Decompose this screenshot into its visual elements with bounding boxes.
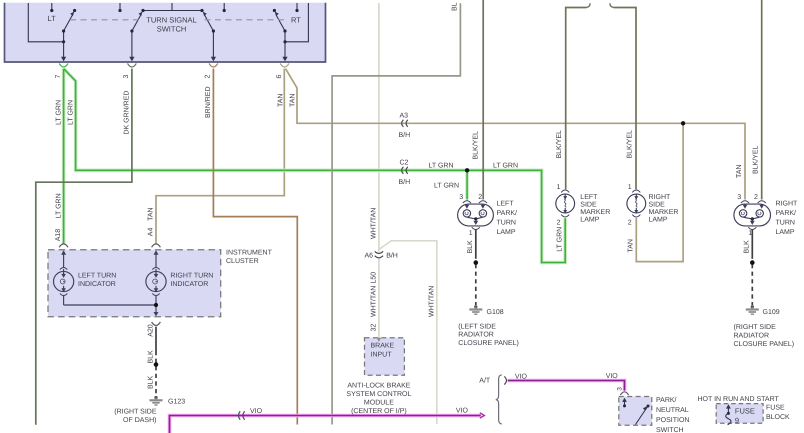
switch blade (pin 2) xyxy=(204,14,213,31)
svg-text:INPUT: INPUT xyxy=(371,351,393,358)
svg-text:SIDE: SIDE xyxy=(649,201,666,208)
svg-text:POSITION: POSITION xyxy=(656,417,689,424)
svg-text:2: 2 xyxy=(205,75,212,79)
lamp right side marker xyxy=(627,190,646,217)
svg-text:TAN: TAN xyxy=(289,94,296,107)
wire BLK dashed from splice to ground G109 xyxy=(751,264,753,305)
svg-text:RADIATOR: RADIATOR xyxy=(458,332,494,339)
wire BLK dashed from splice to ground G108 xyxy=(475,264,477,305)
ground G108 xyxy=(469,305,482,314)
svg-text:LT GRN: LT GRN xyxy=(434,183,459,190)
svg-text:TURN: TURN xyxy=(497,219,516,226)
svg-text:3: 3 xyxy=(737,194,741,201)
svg-text:WHT/TAN: WHT/TAN xyxy=(427,286,435,317)
svg-text:1: 1 xyxy=(748,230,752,237)
svg-text:LT GRN: LT GRN xyxy=(493,163,518,170)
svg-text:PARK/: PARK/ xyxy=(497,209,518,217)
svg-text:RIGHT: RIGHT xyxy=(776,200,799,207)
svg-text:LEFT: LEFT xyxy=(497,200,515,207)
svg-text:LT GRN: LT GRN xyxy=(429,163,454,170)
inline connector A6 B/H on WHT/TAN wire xyxy=(375,251,383,257)
park/neutral switch internals xyxy=(625,401,648,425)
svg-text:WHT/TAN: WHT/TAN xyxy=(369,208,377,239)
svg-text:L50: L50 xyxy=(370,272,377,284)
pin 3 connector arc xyxy=(128,63,137,67)
node stub center tap xyxy=(171,3,173,11)
svg-text:LEFT: LEFT xyxy=(580,194,598,201)
svg-text:G109: G109 xyxy=(763,309,780,316)
svg-text:LAMP: LAMP xyxy=(497,229,516,236)
svg-text:BLK: BLK xyxy=(147,350,154,364)
svg-text:LT GRN: LT GRN xyxy=(55,100,62,125)
wire BLK from right park/turn lamp pin 1 to splice xyxy=(751,230,753,259)
pin 2 connector arc xyxy=(209,63,218,67)
wire TAN branch from junction down to right side marker pin 2 xyxy=(636,123,683,261)
ground G123 xyxy=(150,396,163,405)
wire VIO lower from bottom edge up and across to A/T brace xyxy=(170,416,481,433)
svg-text:LEFT TURN: LEFT TURN xyxy=(78,272,116,279)
wire LT GRN halo xyxy=(64,69,566,263)
svg-text:BLK: BLK xyxy=(467,240,474,254)
wire VIO upper from brace connector to park/neutral position switch xyxy=(508,381,625,391)
switch gang dashed line xyxy=(70,19,288,21)
svg-text:BLK/YEL: BLK/YEL xyxy=(472,131,480,160)
svg-text:(CENTER OF I/P): (CENTER OF I/P) xyxy=(351,407,407,415)
svg-text:RIGHT TURN: RIGHT TURN xyxy=(170,272,213,279)
wire switch 1 drop to pin 7 xyxy=(63,31,65,57)
svg-text:C2: C2 xyxy=(400,160,409,167)
wire WHT/TAN from top to ABS module brake input xyxy=(378,3,380,339)
svg-text:TAN: TAN xyxy=(627,239,634,252)
wire switch 4 drop to pin 6 xyxy=(284,31,286,57)
svg-text:A18: A18 xyxy=(55,229,62,242)
arrowheads at switch box bottom pins xyxy=(61,57,288,62)
svg-text:ANTI-LOCK BRAKE: ANTI-LOCK BRAKE xyxy=(347,383,410,390)
wire BLK from left park/turn lamp pin 1 to splice xyxy=(475,230,477,259)
svg-text:(RIGHT SIDE: (RIGHT SIDE xyxy=(734,323,777,331)
svg-text:RADIATOR: RADIATOR xyxy=(734,332,770,339)
junction dot LT GRN at C2 split xyxy=(465,168,469,172)
svg-text:INDICATOR: INDICATOR xyxy=(170,281,208,288)
svg-text:1: 1 xyxy=(557,184,561,191)
inline connector on VIO lower wire xyxy=(238,411,244,419)
wire top bar between switch 2 and 3 xyxy=(143,10,202,12)
svg-text:LT GRN: LT GRN xyxy=(55,193,62,218)
brace A/T split xyxy=(496,375,502,424)
svg-text:A3: A3 xyxy=(400,113,409,120)
svg-text:7: 7 xyxy=(55,75,62,79)
svg-text:A20: A20 xyxy=(147,324,154,337)
svg-text:3: 3 xyxy=(616,387,623,391)
node stub LT xyxy=(51,3,53,10)
junction dot TAN at side marker branch xyxy=(681,121,685,125)
splice dot BLK below left park/turn lamp xyxy=(474,260,479,265)
wire link between indicators inside cluster xyxy=(64,304,156,306)
wire VIO halo xyxy=(170,381,625,433)
arrow WHT/TAN into brake input xyxy=(377,338,382,342)
wire left feed inside switch box xyxy=(28,3,63,42)
svg-text:6: 6 xyxy=(276,75,283,79)
svg-text:SWITCH: SWITCH xyxy=(157,25,187,34)
wire LT GRN drop from junction to left park/turn lamp pin 3 xyxy=(466,170,468,199)
svg-text:FUSE: FUSE xyxy=(766,405,785,412)
svg-text:(RIGHT SIDE: (RIGHT SIDE xyxy=(114,408,157,416)
wire BLK/YEL to right side marker pin 1 (with top inline connector half) xyxy=(610,3,636,189)
svg-text:NEUTRAL: NEUTRAL xyxy=(656,407,689,414)
wire LT GRN from pin 7 diagonal down, across page, down to left side marker pin 2 xyxy=(64,69,565,263)
svg-text:WHT/TAN: WHT/TAN xyxy=(369,286,377,317)
svg-text:MARKER: MARKER xyxy=(649,209,679,216)
svg-text:HOT IN RUN AND START: HOT IN RUN AND START xyxy=(698,396,780,403)
svg-text:BLOCK: BLOCK xyxy=(766,414,790,421)
svg-text:VIO: VIO xyxy=(456,407,469,414)
svg-text:SWITCH: SWITCH xyxy=(656,427,684,433)
svg-text:VIO: VIO xyxy=(250,408,263,415)
svg-text:RIGHT: RIGHT xyxy=(649,194,672,201)
switch blade RT (pin 6) xyxy=(276,14,285,31)
svg-text:INSTRUMENT: INSTRUMENT xyxy=(226,249,273,256)
pin 3 connector arc park/neutral xyxy=(620,392,628,395)
svg-text:OF DASH): OF DASH) xyxy=(123,416,156,424)
svg-text:FUSE: FUSE xyxy=(735,407,755,416)
fuse block box xyxy=(716,404,763,424)
pin 7 connector arc xyxy=(59,63,68,67)
switch blade LT (pin 7) xyxy=(64,14,73,31)
wire BRN/RED from pin 2 down, right, down crossing VIO xyxy=(213,69,297,425)
svg-text:32: 32 xyxy=(370,324,377,332)
lamp right park/turn xyxy=(734,201,771,230)
lamp right turn indicator xyxy=(146,253,166,314)
svg-text:PARK/: PARK/ xyxy=(776,209,797,217)
svg-text:SIDE: SIDE xyxy=(580,201,597,208)
svg-text:INDICATOR: INDICATOR xyxy=(78,281,116,288)
svg-text:RT: RT xyxy=(291,15,301,24)
wire BLK from instrument cluster pin A20 to splice xyxy=(155,327,157,351)
svg-text:BL: BL xyxy=(452,2,459,11)
junction dots inside switch box xyxy=(50,9,298,44)
svg-text:BLK/YEL: BLK/YEL xyxy=(752,145,760,174)
turn signal switch internals xyxy=(28,3,308,57)
wire DK GRN/RED from pin 3 down, left, down to bottom left xyxy=(36,69,132,425)
wire WHT/TAN branch jog to lower right crossing VIO xyxy=(379,241,437,424)
wire TAN from pin 6 diagonal, long horizontal to right park/turn lamp pin 3 xyxy=(286,69,746,200)
svg-text:B/H: B/H xyxy=(399,131,411,139)
svg-text:LT: LT xyxy=(48,14,57,23)
svg-text:B/H: B/H xyxy=(386,252,398,260)
node stub RT xyxy=(296,3,298,10)
svg-text:2: 2 xyxy=(754,194,758,201)
wire BLK/YEL to left side marker pin 1 (with top inline connector half) xyxy=(566,3,590,189)
svg-text:BRAKE: BRAKE xyxy=(371,342,395,349)
svg-text:(LEFT SIDE: (LEFT SIDE xyxy=(458,322,496,330)
svg-text:DK GRN/RED: DK GRN/RED xyxy=(122,91,130,135)
wire BLK (gray) from top, turns left then down mid page xyxy=(332,3,460,424)
svg-text:1: 1 xyxy=(628,184,632,191)
svg-text:3: 3 xyxy=(459,194,463,201)
svg-text:LT GRN: LT GRN xyxy=(67,100,74,125)
svg-text:CLOSURE PANEL): CLOSURE PANEL) xyxy=(458,339,519,347)
wire switch 2 drop to pin 3 xyxy=(131,31,133,57)
svg-text:G123: G123 xyxy=(168,398,185,405)
svg-text:CLUSTER: CLUSTER xyxy=(226,258,259,265)
svg-text:BLK: BLK xyxy=(744,240,751,254)
wire LT GRN from pin 7 down to instrument cluster pin A18 xyxy=(63,69,65,244)
svg-text:TAN: TAN xyxy=(736,165,743,178)
pin 6 connector arc xyxy=(280,63,289,67)
ground G109 xyxy=(746,305,759,314)
wire BLK dashed from splice to ground G123 xyxy=(155,351,157,396)
turn signal switch box xyxy=(5,3,326,62)
fuse 9 symbol xyxy=(726,404,731,425)
inline connector on VIO upper wire at brace xyxy=(504,376,506,384)
svg-text:TAN: TAN xyxy=(147,207,154,220)
svg-text:A6: A6 xyxy=(365,253,374,260)
svg-text:BLK/YEL: BLK/YEL xyxy=(626,130,634,159)
pin A4 connector arc xyxy=(152,244,161,247)
svg-text:9: 9 xyxy=(735,416,739,425)
wire right feed inside switch box xyxy=(285,3,308,42)
svg-text:LAMP: LAMP xyxy=(649,216,668,223)
svg-text:LT GRN: LT GRN xyxy=(556,227,563,252)
svg-text:2: 2 xyxy=(628,219,632,226)
svg-text:A4: A4 xyxy=(147,228,154,237)
svg-text:TURN SIGNAL: TURN SIGNAL xyxy=(146,16,196,25)
wire BLK/YEL to left park/turn lamp pin 2 xyxy=(482,0,484,200)
svg-text:1: 1 xyxy=(469,230,473,237)
node stub 2 xyxy=(119,3,121,10)
svg-text:G108: G108 xyxy=(487,309,504,316)
svg-text:VIO: VIO xyxy=(515,373,528,380)
svg-text:PARK/: PARK/ xyxy=(656,396,677,404)
svg-text:MODULE: MODULE xyxy=(364,400,394,407)
lamp left park/turn xyxy=(458,201,494,230)
wire BLK/YEL to right park/turn lamp pin 2 xyxy=(761,0,763,200)
arrowheads on switch blades xyxy=(70,12,279,17)
svg-text:A/T: A/T xyxy=(479,377,491,385)
svg-text:TAN: TAN xyxy=(277,94,284,107)
inline connector A3 B/H on TAN wire xyxy=(402,120,408,127)
svg-text:LAMP: LAMP xyxy=(776,229,795,236)
svg-text:CLOSURE PANEL): CLOSURE PANEL) xyxy=(734,340,795,348)
svg-text:VIO: VIO xyxy=(606,373,619,380)
pin A18 connector arc xyxy=(59,244,68,247)
svg-text:BRN/RED: BRN/RED xyxy=(204,86,212,118)
svg-text:MARKER: MARKER xyxy=(580,209,610,216)
svg-text:2: 2 xyxy=(478,194,482,201)
brake input box xyxy=(365,338,405,376)
svg-text:TURN: TURN xyxy=(776,219,795,226)
lamp left turn indicator xyxy=(54,253,74,305)
lamp left side marker xyxy=(556,190,575,217)
svg-text:2: 2 xyxy=(557,219,561,226)
inline connector C2 B/H on LT GRN wire xyxy=(402,167,408,174)
svg-text:LAMP: LAMP xyxy=(580,216,599,223)
wire switch 3 drop to pin 2 xyxy=(212,31,214,57)
arrow VIO lower wire end xyxy=(480,413,485,418)
svg-text:SYSTEM CONTROL: SYSTEM CONTROL xyxy=(346,391,411,398)
wire TAN from pin 6 straight down then left to instrument cluster pin A4 xyxy=(156,69,284,244)
splice dot BLK below right park/turn lamp xyxy=(750,260,755,265)
instrument cluster box xyxy=(48,250,221,317)
switch blade (pin 3) xyxy=(132,14,141,31)
svg-text:BLK: BLK xyxy=(147,375,154,389)
node stub 3 xyxy=(223,3,225,10)
park/neutral position switch box xyxy=(619,397,652,426)
svg-text:3: 3 xyxy=(123,75,130,79)
svg-text:BLK/YEL: BLK/YEL xyxy=(555,130,563,159)
pin A20 connector arc xyxy=(152,322,161,325)
junction dot indicators common xyxy=(154,303,158,307)
splice dot BLK below instrument cluster xyxy=(154,362,159,367)
svg-text:B/H: B/H xyxy=(399,178,411,186)
